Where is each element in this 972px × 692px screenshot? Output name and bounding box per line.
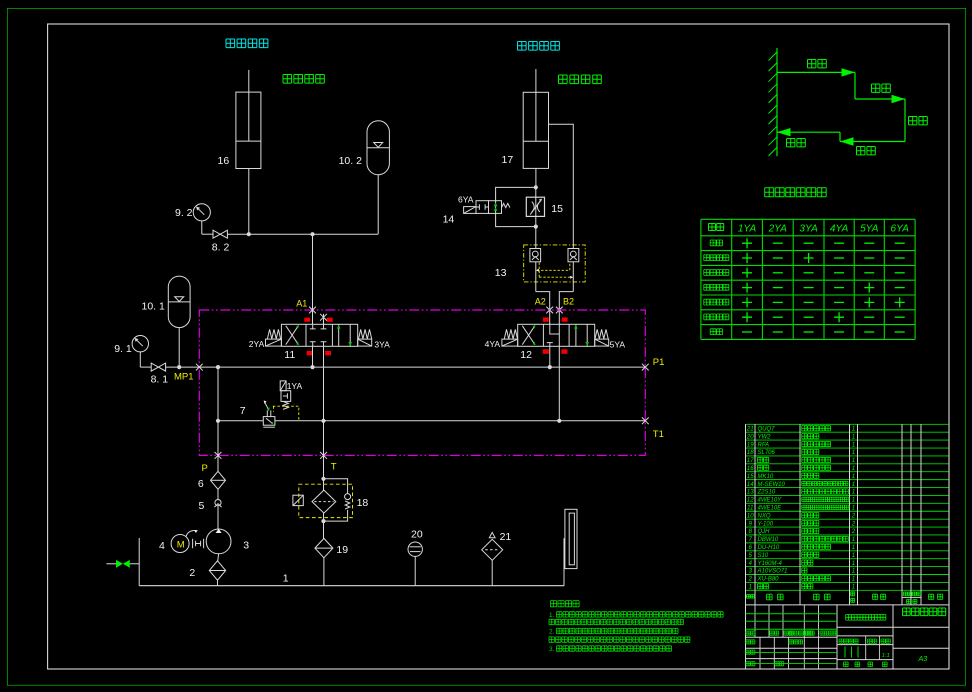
svg-text:3: 3 xyxy=(748,568,752,575)
return filter 19 xyxy=(315,538,333,557)
cooler bypass check valve xyxy=(324,479,351,521)
svg-text:1: 1 xyxy=(852,457,855,464)
svg-text:6YA: 6YA xyxy=(458,195,474,205)
svg-text:2: 2 xyxy=(851,520,856,527)
svg-text:4: 4 xyxy=(748,560,752,567)
junction at A1 drop xyxy=(310,232,314,236)
shutoff valve 8.1 xyxy=(151,363,165,371)
junction valve 11 P xyxy=(310,365,314,369)
pressure switch at cooler xyxy=(293,495,303,505)
svg-text:18: 18 xyxy=(357,497,369,509)
svg-text:9. 1: 9. 1 xyxy=(114,343,132,355)
svg-text:10. 1: 10. 1 xyxy=(142,301,166,313)
svg-text:3YA: 3YA xyxy=(799,224,818,235)
svg-text:1: 1 xyxy=(852,441,855,448)
junction accumulator 10.1 xyxy=(177,365,181,369)
port marks valve 11 (red) xyxy=(304,318,332,356)
svg-text:4YA: 4YA xyxy=(830,224,849,235)
port crossing A2 xyxy=(546,307,553,314)
svg-text:P1: P1 xyxy=(653,357,665,368)
svg-text:Y160M-4: Y160M-4 xyxy=(758,561,783,567)
svg-text:15: 15 xyxy=(747,473,754,480)
svg-text:17: 17 xyxy=(747,457,754,464)
svg-text:1: 1 xyxy=(852,481,855,488)
parts list header row xyxy=(747,590,943,603)
valve 11 left spring xyxy=(267,329,280,339)
svg-text:M: M xyxy=(177,540,185,551)
cycle step stop xyxy=(777,128,840,136)
svg-text:SL706: SL706 xyxy=(758,450,776,456)
svg-text:7: 7 xyxy=(748,536,752,543)
cooler 18 xyxy=(312,490,336,513)
svg-text:4WE10E: 4WE10E xyxy=(758,506,783,512)
valve 12 left solenoid 4YA xyxy=(502,339,518,346)
svg-text:15: 15 xyxy=(551,203,563,215)
svg-text:1: 1 xyxy=(852,449,855,456)
svg-text:T1: T1 xyxy=(653,429,664,440)
svg-text:T: T xyxy=(331,462,337,473)
wire check5 to pump xyxy=(217,506,219,529)
wire A-line through block 13 xyxy=(536,227,550,325)
svg-text:4: 4 xyxy=(159,540,165,552)
svg-text:RFA: RFA xyxy=(758,442,770,448)
table row lift fast advance xyxy=(704,283,905,293)
port crossing P bottom xyxy=(215,452,222,459)
cycle step fast-return xyxy=(840,132,905,146)
solenoid seat valve 14 (M-SEW10) xyxy=(476,201,510,214)
svg-text:17: 17 xyxy=(502,154,514,166)
pressure filter 6 xyxy=(211,471,226,489)
svg-text:6: 6 xyxy=(748,544,752,551)
parts list table xyxy=(746,424,950,605)
svg-text:A1: A1 xyxy=(296,298,307,308)
title block labels xyxy=(746,608,946,667)
svg-text:2YA: 2YA xyxy=(768,224,788,235)
wire pump suction xyxy=(218,554,219,586)
svg-text:4YA: 4YA xyxy=(485,339,501,349)
svg-text:1: 1 xyxy=(852,473,855,480)
pilot line to right check valve xyxy=(536,262,570,272)
solenoid 6YA xyxy=(464,207,476,214)
valve 11 right spring xyxy=(359,329,372,339)
valve 12 left spring xyxy=(504,329,517,339)
accumulator 10.2 xyxy=(367,121,389,175)
solenoid vent valve 1YA xyxy=(280,381,291,410)
pilot line to left check valve xyxy=(539,262,573,279)
svg-text:19: 19 xyxy=(747,441,754,448)
svg-text:19: 19 xyxy=(336,544,348,556)
svg-text:2YA: 2YA xyxy=(249,339,265,349)
solenoid action table xyxy=(701,219,915,339)
svg-text:1: 1 xyxy=(852,425,855,432)
svg-text:1: 1 xyxy=(852,505,855,512)
svg-text:A10VSO71: A10VSO71 xyxy=(757,569,788,575)
svg-text:14: 14 xyxy=(747,481,754,488)
svg-text:Y-100: Y-100 xyxy=(758,521,774,527)
suction filter 2 xyxy=(209,561,225,580)
svg-text:2: 2 xyxy=(851,512,856,519)
electric motor 4 xyxy=(171,535,189,553)
wire cylinder17 bottom port xyxy=(535,168,537,187)
svg-text:5: 5 xyxy=(748,552,752,559)
svg-text:3YA: 3YA xyxy=(374,340,390,350)
svg-text:NXQ: NXQ xyxy=(758,513,771,519)
directional valve 11 (4WE10E) xyxy=(281,324,357,346)
svg-text:1: 1 xyxy=(852,552,855,559)
svg-text:MK10: MK10 xyxy=(758,474,774,480)
junction above throttle 15 xyxy=(534,185,538,189)
cooler 18 enclosure (yellow dashed) xyxy=(299,484,353,517)
label dwell xyxy=(909,117,928,125)
wire gauge9.1 drop xyxy=(139,352,141,367)
drain valve (green) xyxy=(106,538,139,586)
port crossing T1 right xyxy=(642,417,649,424)
thermometer 20 xyxy=(408,542,422,586)
svg-text:12: 12 xyxy=(520,349,532,361)
svg-text:1: 1 xyxy=(852,576,855,583)
pilot check valve 13 right xyxy=(568,249,579,262)
table row buffer hold xyxy=(704,268,905,278)
title solenoid action table xyxy=(765,188,827,197)
svg-text:11: 11 xyxy=(284,349,295,361)
junction pump supply riser xyxy=(216,365,220,369)
table row start xyxy=(710,238,905,248)
pump 3 (A10VSO71) xyxy=(206,529,231,554)
svg-text:10: 10 xyxy=(747,512,754,519)
wire filter19 to tank xyxy=(323,558,325,586)
table row lift work advance xyxy=(704,297,905,307)
accumulator 10.1 xyxy=(168,276,190,328)
svg-text:5YA: 5YA xyxy=(610,340,626,350)
wire valve12 T port xyxy=(558,346,560,421)
svg-text:1: 1 xyxy=(852,544,855,551)
throttle valve 15 xyxy=(526,197,544,216)
svg-text:DBW10: DBW10 xyxy=(758,537,779,543)
label lift cylinder xyxy=(559,75,602,84)
tank line 1 xyxy=(139,585,564,587)
label buffer cylinder xyxy=(283,75,324,84)
svg-text:1: 1 xyxy=(852,497,855,504)
air breather 21 xyxy=(482,532,503,585)
heading lift system xyxy=(518,42,560,51)
svg-text:20: 20 xyxy=(411,529,423,541)
wire buffer manifold xyxy=(202,233,378,235)
svg-text:13: 13 xyxy=(747,489,754,496)
wire gauge9.2 drop xyxy=(201,221,203,234)
pilot-operated check valve block 13 enclosure xyxy=(524,245,586,282)
svg-text:3.: 3. xyxy=(549,646,555,653)
svg-text:6: 6 xyxy=(198,478,204,490)
cylinder 17 (lift cylinder) xyxy=(523,69,548,168)
svg-text:11: 11 xyxy=(747,505,753,512)
pilot check valve 13 left xyxy=(530,249,541,262)
directional valve 12 (4WE10Y) xyxy=(518,324,595,346)
cylinder 16 (buffer cylinder) xyxy=(236,70,261,169)
wire cylinder17 rod-side port xyxy=(549,124,574,248)
junction cooler bypass top xyxy=(321,477,325,481)
junction valve 11 T xyxy=(321,419,325,423)
svg-text:6YA: 6YA xyxy=(891,224,910,235)
plugged port B1 xyxy=(320,314,327,325)
port marks valve 12 (red) xyxy=(543,317,568,353)
svg-text:1: 1 xyxy=(852,465,855,472)
valve 12 right spring xyxy=(595,329,608,339)
technical requirements notes xyxy=(549,601,723,654)
svg-text:2: 2 xyxy=(189,567,195,579)
wire accumulator10.2 to manifold xyxy=(377,175,379,235)
port crossing B2 xyxy=(556,307,563,314)
port crossing A1 xyxy=(309,307,316,314)
svg-text:A3: A3 xyxy=(918,654,928,663)
svg-text:21: 21 xyxy=(500,531,512,543)
wire T drop below block xyxy=(323,455,325,490)
manifold block boundary (magenta chain line) xyxy=(199,310,645,455)
svg-text:A2: A2 xyxy=(535,296,546,306)
svg-text:B2: B2 xyxy=(563,296,574,306)
junction cooler bypass bottom xyxy=(321,519,325,523)
wire A1 xyxy=(312,234,314,324)
svg-text:2: 2 xyxy=(747,576,752,583)
svg-text:1: 1 xyxy=(748,584,751,591)
junction valve 12 P xyxy=(548,365,552,369)
pressure gauge 9. 2 xyxy=(193,204,210,221)
svg-text:5YA: 5YA xyxy=(860,224,879,235)
svg-text:DU-H10: DU-H10 xyxy=(758,545,780,551)
svg-text:QJH: QJH xyxy=(758,529,771,535)
junction valve 12 T xyxy=(557,419,561,423)
svg-text:5: 5 xyxy=(199,500,205,512)
svg-text:XU-B80: XU-B80 xyxy=(757,577,780,583)
svg-text:S10: S10 xyxy=(758,553,769,559)
cycle step dwell xyxy=(904,99,906,142)
table header row xyxy=(709,224,910,235)
svg-text:1: 1 xyxy=(852,560,855,567)
svg-text:4WE10Y: 4WE10Y xyxy=(758,498,783,504)
svg-text:12: 12 xyxy=(747,497,754,504)
wire T1 return rail xyxy=(218,420,645,422)
svg-text:1: 1 xyxy=(852,584,855,591)
svg-text:8. 2: 8. 2 xyxy=(212,241,230,253)
label fast-advance xyxy=(808,60,827,68)
svg-text:18: 18 xyxy=(747,449,754,456)
wire cooler to filter 19 xyxy=(323,513,325,538)
svg-text:P: P xyxy=(202,463,208,474)
pilot relief valve 7 (DBW10) xyxy=(263,400,275,427)
wire valve12 P port xyxy=(549,346,551,367)
shutoff valve 8.2 xyxy=(213,230,227,238)
svg-text:14: 14 xyxy=(443,214,455,226)
junction below throttle 15 xyxy=(534,225,538,229)
junction at cylinder16 drop xyxy=(247,232,251,236)
wire P riser below block xyxy=(217,455,219,471)
svg-text:M-SEW10: M-SEW10 xyxy=(758,482,786,488)
svg-text:2.: 2. xyxy=(549,629,555,636)
valve 11 left solenoid 2YA xyxy=(266,339,282,346)
wire valve11 P port xyxy=(312,346,314,367)
parts list rows xyxy=(746,425,856,590)
svg-text:9. 2: 9. 2 xyxy=(175,207,193,219)
svg-text:1:1: 1:1 xyxy=(882,653,890,659)
svg-text:YW2: YW2 xyxy=(758,434,772,440)
wire valve11 T port xyxy=(323,346,325,421)
junction relief tap xyxy=(216,419,220,423)
svg-text:1YA: 1YA xyxy=(738,224,757,235)
table row stop xyxy=(710,329,905,335)
svg-text:1: 1 xyxy=(852,568,855,575)
valve 12 right solenoid 5YA xyxy=(595,339,609,346)
table row lift fast return xyxy=(704,312,905,322)
port crossing P1 right xyxy=(642,364,649,371)
svg-text:1: 1 xyxy=(852,489,855,496)
svg-text:10. 2: 10. 2 xyxy=(339,155,363,167)
wire B-line through block 13 xyxy=(559,262,573,325)
svg-text:3: 3 xyxy=(243,539,249,551)
label work-advance xyxy=(872,84,891,92)
wire accumulator10.1 drop xyxy=(178,328,180,368)
svg-text:7: 7 xyxy=(240,405,246,417)
check valve 5 xyxy=(214,500,221,508)
wire cylinder16 to manifold xyxy=(248,169,250,235)
svg-text:21: 21 xyxy=(746,425,754,432)
wire main line through throttle xyxy=(535,187,537,226)
svg-text:8. 1: 8. 1 xyxy=(151,374,169,386)
svg-text:9: 9 xyxy=(748,520,752,527)
port crossing P1 left xyxy=(196,364,203,371)
pressure gauge 9. 1 xyxy=(132,336,148,352)
wire bypass around throttle xyxy=(496,187,536,226)
cycle step fast-advance xyxy=(777,68,855,76)
cycle diagram wall xyxy=(769,48,778,156)
port crossing T bottom xyxy=(320,452,327,459)
wire T return drop inside block xyxy=(323,421,325,456)
wire P1 supply rail xyxy=(140,366,645,368)
cycle step work-advance xyxy=(855,72,905,103)
pilot drain line (yellow dashed) xyxy=(273,406,299,421)
svg-text:16: 16 xyxy=(747,465,754,472)
svg-text:1: 1 xyxy=(852,433,855,440)
svg-text:8: 8 xyxy=(748,528,752,535)
title block xyxy=(746,424,950,669)
wire pump riser inside block xyxy=(217,367,219,455)
svg-text:16: 16 xyxy=(218,155,230,167)
valve 11 right solenoid 3YA xyxy=(358,339,372,346)
level gauge on tank xyxy=(564,509,577,585)
svg-text:13: 13 xyxy=(495,267,507,279)
svg-text:1.: 1. xyxy=(549,612,555,619)
svg-text:1: 1 xyxy=(852,536,855,543)
svg-text:1YA: 1YA xyxy=(287,381,303,391)
heading buffer system xyxy=(226,39,268,48)
svg-text:2: 2 xyxy=(851,528,856,535)
table row buffer pressurize xyxy=(704,253,905,263)
svg-text:MP1: MP1 xyxy=(174,371,194,382)
shaft coupling xyxy=(186,530,204,548)
label stop xyxy=(787,139,806,147)
wire filter6 to check5 xyxy=(217,489,219,499)
label fast-return xyxy=(857,147,876,155)
svg-text:QUQ7: QUQ7 xyxy=(758,426,776,432)
svg-text:Z2S10: Z2S10 xyxy=(757,490,776,496)
svg-text:20: 20 xyxy=(746,433,754,440)
svg-text:1: 1 xyxy=(283,573,289,585)
